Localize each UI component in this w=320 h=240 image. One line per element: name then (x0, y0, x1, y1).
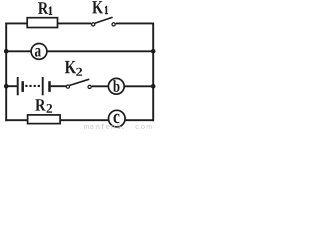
ammeter a (31, 44, 47, 60)
switch K2 (66, 79, 91, 88)
wire top right segment (116, 22, 154, 24)
wire bottom left segment (5, 119, 28, 121)
wire bottom right segment (125, 119, 154, 121)
wire left rail (5, 23, 7, 122)
node row3 left junction (4, 84, 9, 89)
label K2 (65, 61, 82, 76)
wire row3 right segment (125, 85, 154, 87)
switch K1 (92, 17, 116, 26)
wire row2 right segment (47, 50, 154, 52)
meter c (109, 110, 126, 127)
meter b (108, 78, 124, 94)
battery cell1 short plate (21, 81, 24, 92)
battery dots (25, 85, 40, 87)
node row2 right junction (151, 49, 156, 54)
node row3 right junction (151, 84, 156, 89)
battery cell2 short plate (48, 81, 51, 92)
label R1 (38, 2, 52, 15)
wire top middle segment (58, 22, 92, 24)
resistor R2 (28, 115, 61, 124)
label K1 (92, 1, 108, 14)
wire row3 left segment (5, 85, 17, 87)
wire bottom middle segment (60, 119, 108, 121)
label R2 (35, 99, 52, 113)
wire row3 K2 to b (92, 85, 108, 87)
node row2 left junction (4, 49, 9, 54)
wire right rail (152, 23, 154, 122)
resistor R1 (27, 18, 57, 28)
watermark (84, 124, 152, 129)
wire row2 left segment (5, 50, 31, 52)
battery cell1 long plate (17, 77, 19, 95)
wire top left segment (5, 22, 28, 24)
wire row3 battery to K2 (51, 85, 66, 87)
battery cell2 long plate (42, 77, 44, 95)
